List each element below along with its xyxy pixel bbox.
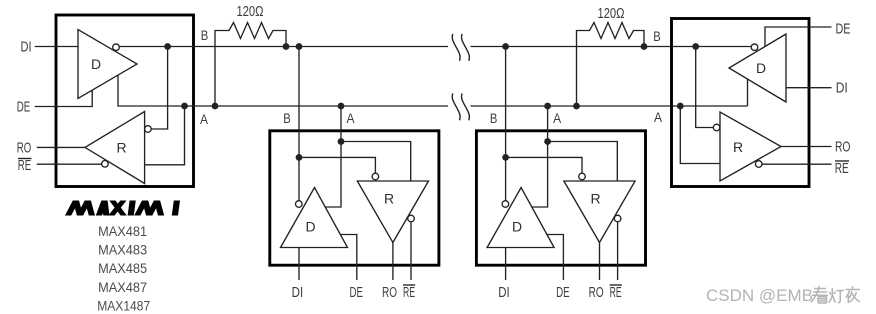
transceiver U2 box: [270, 131, 439, 265]
svg-text:R: R: [116, 140, 126, 156]
enable bubble RE U4: [755, 161, 762, 168]
enable bubble RE U2: [408, 215, 415, 222]
node A internal junction U2: [338, 138, 345, 145]
line break symbol on A: [452, 94, 460, 121]
svg-text:B: B: [653, 29, 661, 44]
svg-text:D: D: [305, 219, 315, 235]
wire RE U1: [37, 163, 102, 165]
wire B output U1: [119, 46, 193, 48]
svg-text:120Ω: 120Ω: [598, 6, 625, 22]
svg-text:120Ω: 120Ω: [237, 4, 264, 20]
wire A to driver output U2: [325, 142, 341, 208]
transceiver U1 box: [56, 15, 194, 187]
driver inverting output bubble U2: [296, 201, 303, 208]
wire B to receiver bubble U2: [299, 157, 375, 173]
svg-text:D: D: [91, 56, 101, 72]
receiver R U1: [85, 112, 145, 184]
svg-text:RO: RO: [382, 285, 397, 301]
wire RE U4: [762, 163, 832, 165]
wire bus line B: [194, 46, 696, 48]
node R2 to line B: [641, 43, 648, 50]
wire A stub U2: [340, 106, 342, 142]
part number list: [97, 223, 150, 313]
driver D U2: [281, 188, 348, 248]
node R1 to line A: [212, 103, 219, 110]
svg-text:CSDN @EMB: CSDN @EMB: [706, 286, 813, 305]
wire B to driver bubble U2: [298, 157, 300, 200]
svg-text:B: B: [201, 28, 209, 43]
node B stub on bus: [296, 43, 303, 50]
transceiver U4 box: [672, 19, 810, 187]
wire DI U1: [35, 46, 78, 48]
wire bubble to B node U4: [696, 46, 752, 48]
svg-text:A: A: [347, 111, 355, 126]
receiver R U2: [357, 181, 428, 243]
resistor R2 120ohm termination right: [577, 23, 645, 107]
wire DI U2: [298, 248, 300, 281]
svg-text:MAX483: MAX483: [98, 242, 147, 258]
wire A to receiver input U2: [341, 142, 411, 182]
svg-text:RE: RE: [835, 161, 849, 177]
svg-text:B: B: [283, 111, 291, 126]
svg-text:MAX1487: MAX1487: [97, 297, 150, 313]
svg-text:RE: RE: [403, 285, 415, 301]
wire DE U4: [765, 27, 832, 46]
driver inverting output bubble U4: [751, 44, 758, 51]
MAXIM logo: [65, 201, 180, 216]
svg-text:DI: DI: [21, 40, 32, 56]
wire RO U4: [781, 146, 832, 148]
driver D U1: [78, 30, 137, 99]
line break symbol on B: [452, 34, 460, 61]
svg-text:A: A: [200, 112, 208, 127]
transceiver U2 stub group: [270, 43, 439, 301]
inverting output bubble U1 driver: [113, 44, 120, 51]
svg-text:MAX487: MAX487: [98, 279, 147, 295]
svg-text:A: A: [654, 110, 662, 125]
svg-text:R: R: [384, 191, 394, 207]
wire RO U2: [392, 243, 394, 281]
wire from B node down to receiver bubble U1: [151, 47, 167, 130]
resistor R1 120ohm termination left: [215, 23, 286, 107]
node B internal junction U2: [296, 154, 303, 161]
node junction B inside U4: [692, 43, 699, 50]
node R1 to line B: [283, 43, 290, 50]
wire DE U1: [35, 90, 92, 106]
receiver R U4: [720, 112, 781, 181]
transceiver U3 (copy of U2): [476, 43, 645, 301]
receiver inverting input bubble U1: [145, 126, 152, 133]
node R2 to line A: [573, 103, 580, 110]
wire RO U1: [37, 146, 85, 148]
wire A node down to receiver input U4: [680, 106, 720, 164]
enable bubble RE U1: [102, 161, 109, 168]
svg-text:RO: RO: [17, 141, 32, 157]
wire DI U4: [786, 87, 832, 89]
receiver inverting input bubble U2: [372, 173, 379, 180]
receiver inverting input bubble U4: [713, 124, 720, 131]
watermark CJK glyphs: [811, 286, 860, 303]
node junction B inside U1: [164, 43, 171, 50]
svg-text:RO: RO: [835, 140, 851, 156]
svg-text:DI: DI: [836, 81, 848, 97]
node junction A inside U1: [181, 103, 188, 110]
svg-text:R: R: [733, 139, 743, 155]
svg-text:D: D: [756, 60, 766, 76]
svg-text:DI: DI: [292, 285, 304, 301]
wire DE U2: [340, 235, 356, 281]
wire driver A output U4: [747, 79, 749, 106]
wire A output U1: [118, 75, 194, 106]
node junction A inside U4: [677, 103, 684, 110]
svg-text:MAX481: MAX481: [98, 223, 147, 239]
wire from A node down to receiver input U1: [145, 106, 185, 165]
svg-text:MAX485: MAX485: [98, 260, 147, 276]
svg-text:DE: DE: [836, 22, 851, 38]
svg-text:RE: RE: [18, 158, 32, 174]
node A stub on bus: [338, 103, 345, 110]
wire B stub U2: [298, 47, 300, 158]
wire B node down to receiver bubble U4: [696, 47, 714, 128]
driver D U4: [729, 34, 786, 102]
svg-text:DE: DE: [350, 285, 364, 301]
wire bus line A: [194, 105, 748, 107]
svg-text:DE: DE: [17, 100, 31, 116]
wire RE U2: [410, 222, 412, 280]
